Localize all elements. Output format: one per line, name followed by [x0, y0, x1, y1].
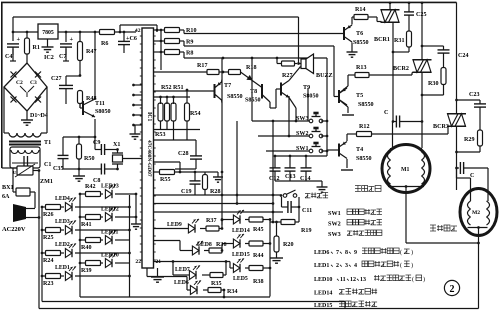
- svg-text:SW3: SW3: [328, 231, 341, 238]
- LED LED3: [65, 220, 76, 234]
- svg-text:22: 22: [135, 259, 141, 265]
- junction: [194, 171, 197, 174]
- svg-text:SW1: SW1: [328, 210, 341, 217]
- svg-text:LED6: LED6: [314, 250, 329, 256]
- svg-text:R14: R14: [355, 7, 366, 13]
- svg-text:ZM1: ZM1: [40, 179, 53, 185]
- junction: [276, 57, 279, 60]
- wire: [272, 195, 274, 222]
- resistor R44: [245, 241, 270, 259]
- ground: [21, 110, 33, 125]
- junction: [128, 275, 131, 278]
- legend SW2: [328, 220, 382, 228]
- LED LED13: [105, 184, 116, 198]
- legend SW3: [328, 230, 382, 238]
- wire: [10, 60, 16, 62]
- svg-text:R18: R18: [246, 65, 257, 71]
- junction: [421, 120, 424, 123]
- junction: [280, 194, 283, 197]
- wire: [321, 120, 327, 122]
- label LED11: [101, 230, 118, 236]
- triac BCR2: [393, 60, 432, 73]
- svg-text:R20: R20: [283, 242, 294, 248]
- resistor R47: [78, 32, 97, 76]
- svg-text:R1: R1: [33, 45, 40, 51]
- resistor R39: [80, 261, 103, 275]
- svg-text:9: 9: [354, 250, 357, 256]
- switch ANQ: [283, 190, 297, 197]
- wire: [221, 58, 223, 106]
- svg-text:R34: R34: [227, 289, 238, 295]
- label LED6: [174, 280, 189, 286]
- capacitor C9: [93, 140, 118, 155]
- wire: [13, 16, 299, 18]
- junction: [326, 150, 329, 153]
- wire: [299, 63, 302, 65]
- wire: [2, 2, 457, 168]
- resistor R10: [154, 28, 197, 35]
- capacitor C4: [5, 36, 21, 60]
- wire: [154, 228, 189, 230]
- wire: [94, 119, 96, 137]
- LED LED12: [105, 207, 116, 221]
- svg-text:LED5: LED5: [233, 276, 248, 282]
- svg-text:BCR3: BCR3: [433, 124, 449, 130]
- svg-text:S8050: S8050: [303, 94, 319, 100]
- wire: [443, 53, 445, 62]
- svg-text:3: 3: [345, 263, 348, 269]
- junction: [160, 29, 163, 32]
- wire: [341, 169, 353, 171]
- resistor R42: [80, 184, 103, 197]
- IC U1 47C400N-GD07: [135, 28, 161, 268]
- svg-text:BX1: BX1: [2, 185, 14, 191]
- wire: [173, 97, 175, 104]
- junction: [275, 221, 278, 224]
- wire: [63, 136, 95, 138]
- junction: [156, 29, 159, 32]
- wire: [340, 86, 348, 93]
- resistor R55: [154, 170, 196, 184]
- resistor R52: [158, 103, 163, 130]
- plug AC220V: [2, 204, 39, 233]
- wire: [75, 252, 130, 254]
- junction: [221, 171, 224, 174]
- junction: [477, 242, 480, 245]
- svg-text:C: C: [384, 110, 388, 116]
- resistor R14: [352, 7, 377, 20]
- wire: [221, 80, 224, 83]
- wire: [205, 171, 218, 173]
- svg-text:IC2: IC2: [44, 55, 54, 61]
- svg-text:R39: R39: [81, 268, 92, 274]
- resistor R36: [204, 242, 227, 253]
- wire: [154, 71, 208, 73]
- ground: [213, 172, 223, 182]
- wire: [154, 194, 282, 196]
- ground: [130, 125, 141, 139]
- wire: [443, 46, 445, 50]
- label LED2: [55, 242, 70, 248]
- switch SW2: [296, 127, 323, 138]
- svg-text:4: 4: [354, 263, 357, 269]
- svg-text:AC220V: AC220V: [2, 226, 26, 233]
- junction: [421, 1, 424, 4]
- switch SW1: [296, 142, 323, 153]
- wire: [183, 41, 185, 46]
- wire: [251, 58, 253, 121]
- label LED5: [233, 276, 248, 282]
- wire: [421, 73, 423, 149]
- svg-text:SW2: SW2: [296, 131, 309, 137]
- varistor ZM1: [13, 164, 53, 185]
- LED LED9: [188, 219, 199, 233]
- svg-text:R30: R30: [428, 81, 439, 87]
- transistor T6: [344, 25, 369, 46]
- wire: [154, 96, 191, 98]
- wire: [326, 150, 328, 156]
- wire: [65, 32, 67, 42]
- capacitor C19: [181, 172, 201, 195]
- wire: [34, 192, 36, 208]
- wire: [75, 275, 130, 277]
- junction: [132, 94, 135, 97]
- junction: [128, 252, 131, 255]
- triac BCR1: [374, 10, 400, 43]
- resistor R34: [203, 288, 238, 296]
- wire: [393, 51, 409, 53]
- label LED4: [55, 196, 70, 202]
- LED LED4: [65, 197, 76, 211]
- wire: [175, 168, 196, 170]
- junction: [135, 193, 138, 196]
- wire: [225, 262, 227, 276]
- svg-text:R8: R8: [186, 51, 193, 57]
- wire: [258, 135, 311, 137]
- wire: [183, 30, 185, 34]
- junction: [272, 221, 275, 224]
- capacitor C2m: [460, 162, 488, 179]
- junction: [94, 31, 97, 34]
- svg-text:LED15: LED15: [232, 252, 250, 258]
- svg-text:T4: T4: [356, 147, 363, 153]
- junction: [251, 57, 254, 60]
- wire: [42, 301, 345, 303]
- wire: [75, 229, 130, 231]
- wire: [457, 99, 481, 101]
- ground: [347, 50, 358, 57]
- svg-text:LED8: LED8: [197, 242, 212, 248]
- junction: [26, 31, 29, 34]
- svg-text:R19: R19: [301, 228, 312, 234]
- wire: [389, 2, 391, 10]
- label R52 R51: [161, 85, 184, 91]
- capacitor C23: [469, 92, 486, 107]
- svg-text:+: +: [70, 36, 74, 43]
- wire: [327, 149, 339, 151]
- svg-text:T1: T1: [44, 140, 51, 146]
- svg-text:S8550: S8550: [353, 40, 369, 46]
- LED LED14: [233, 210, 244, 224]
- wire: [377, 21, 382, 23]
- regulator IC2 7805: [38, 24, 58, 39]
- junction: [272, 211, 275, 214]
- buzzer BUZZ: [301, 54, 333, 79]
- wire: [120, 24, 157, 26]
- wire: [456, 2, 458, 113]
- wire: [184, 57, 327, 59]
- capacitor C25: [404, 2, 427, 31]
- wire: [3, 87, 5, 133]
- wire: [160, 97, 162, 104]
- junction: [326, 120, 329, 123]
- wire: [46, 87, 48, 133]
- svg-text:+: +: [17, 36, 21, 43]
- junction: [166, 96, 169, 99]
- junction: [455, 151, 458, 154]
- svg-text:C4: C4: [5, 54, 12, 60]
- wire: [154, 139, 197, 141]
- wire: [392, 22, 394, 53]
- wire: [221, 106, 223, 225]
- svg-text:LED10: LED10: [314, 277, 332, 283]
- svg-text:12: 12: [350, 277, 356, 283]
- junction: [12, 31, 15, 34]
- junction: [79, 74, 82, 77]
- wire: [66, 75, 80, 77]
- svg-text:S8050: S8050: [95, 109, 111, 115]
- svg-text:S8550: S8550: [245, 98, 261, 104]
- wire: [307, 88, 309, 121]
- svg-text:LED15: LED15: [314, 303, 332, 309]
- wire: [276, 58, 278, 64]
- wire: [156, 25, 158, 30]
- svg-text:42: 42: [135, 28, 141, 34]
- svg-text:R12: R12: [359, 124, 370, 130]
- junction: [79, 216, 82, 219]
- wire: [478, 243, 480, 309]
- svg-text:SW3: SW3: [296, 116, 309, 122]
- legend LED15: [314, 301, 377, 309]
- wire: [221, 244, 223, 251]
- resistor R31: [394, 31, 412, 52]
- junction: [135, 216, 138, 219]
- label LED14: [232, 228, 250, 234]
- crystal X1: [112, 142, 142, 169]
- wire: [457, 151, 481, 153]
- svg-text:7805: 7805: [42, 30, 54, 36]
- label LED1: [55, 265, 70, 271]
- svg-text:M2: M2: [472, 210, 480, 216]
- junction: [221, 194, 224, 197]
- svg-text:LED14: LED14: [232, 228, 250, 234]
- junction: [236, 202, 239, 205]
- junction: [477, 226, 480, 229]
- wire: [346, 159, 348, 168]
- ground: [270, 256, 283, 263]
- resistor R51: [165, 103, 170, 130]
- wire: [412, 72, 413, 74]
- wire: [134, 94, 143, 96]
- junction: [79, 262, 82, 265]
- wire: [2, 167, 17, 169]
- junction: [38, 169, 41, 172]
- svg-text:R54: R54: [190, 111, 201, 117]
- ground: [131, 221, 141, 229]
- wire: [154, 211, 284, 213]
- wire: [321, 135, 327, 137]
- label LED12: [101, 207, 119, 213]
- label LED13: [101, 184, 119, 190]
- wire: [342, 114, 354, 116]
- svg-text:R55: R55: [160, 177, 171, 183]
- svg-text:LED1: LED1: [314, 263, 329, 269]
- wire: [160, 30, 162, 70]
- wire: [275, 89, 277, 108]
- svg-text:R52 R51: R52 R51: [161, 85, 184, 91]
- wire: [115, 239, 130, 241]
- wire: [38, 171, 40, 309]
- svg-text:C28: C28: [178, 151, 189, 157]
- wire: [392, 122, 394, 149]
- junction: [455, 167, 458, 170]
- fuse BX1: [2, 185, 30, 200]
- svg-text:1: 1: [156, 28, 159, 34]
- resistor R18: [219, 65, 257, 75]
- transistor T4: [339, 142, 372, 163]
- junction: [159, 96, 162, 99]
- resistor R38: [245, 266, 270, 286]
- svg-text:S8550: S8550: [356, 156, 372, 162]
- svg-text:BUZZ: BUZZ: [316, 73, 333, 79]
- capacitor C28: [178, 140, 202, 169]
- junction: [288, 135, 291, 138]
- wire: [39, 308, 390, 310]
- wire: [422, 94, 444, 96]
- junction: [408, 1, 411, 4]
- junction: [132, 104, 135, 107]
- svg-text:R38: R38: [253, 279, 264, 285]
- capacitor C12: [269, 156, 281, 182]
- svg-text:): ): [423, 276, 425, 283]
- svg-text:SW1: SW1: [296, 146, 309, 152]
- resistor R19: [281, 220, 312, 235]
- junction: [421, 94, 424, 97]
- wire: [13, 31, 136, 33]
- switch SW3: [296, 112, 323, 123]
- svg-text:C23: C23: [469, 92, 480, 98]
- svg-text:T5: T5: [356, 93, 363, 99]
- junction: [269, 242, 272, 245]
- svg-text:2: 2: [450, 284, 455, 295]
- resistor R1: [25, 32, 40, 64]
- label LED10: [101, 253, 119, 259]
- LED LED2: [65, 243, 76, 257]
- capacitor C8: [93, 164, 118, 185]
- svg-text:R24: R24: [43, 258, 54, 264]
- wire: [236, 121, 238, 204]
- wire: [479, 100, 481, 104]
- wire: [135, 194, 137, 221]
- label IC2: [44, 55, 54, 61]
- svg-text:R36: R36: [216, 242, 227, 248]
- junction: [272, 194, 275, 197]
- svg-text:R13: R13: [356, 65, 367, 71]
- junction: [221, 219, 224, 222]
- wire: [230, 267, 233, 269]
- junction: [297, 62, 300, 65]
- svg-text:BCR2: BCR2: [393, 66, 409, 72]
- capacitor C35: [53, 137, 69, 172]
- capacitor C1: [10, 147, 51, 168]
- wire: [119, 25, 121, 32]
- junction: [119, 31, 122, 34]
- svg-text:C7: C7: [59, 54, 66, 60]
- wire: [275, 180, 322, 182]
- wire: [173, 130, 175, 141]
- svg-text:2: 2: [336, 263, 339, 269]
- svg-text:C2: C2: [16, 80, 23, 86]
- junction: [128, 229, 131, 232]
- ground: [317, 181, 328, 192]
- wire: [129, 195, 131, 297]
- transistor T7: [215, 82, 243, 100]
- transformer T1: [4, 133, 51, 146]
- svg-text:R41: R41: [81, 222, 92, 228]
- junction: [132, 124, 135, 127]
- wire: [63, 60, 69, 62]
- wire: [154, 203, 274, 205]
- wire: [80, 107, 83, 109]
- svg-text:S8550: S8550: [358, 102, 374, 108]
- svg-text:LED7: LED7: [175, 267, 190, 273]
- wire: [180, 250, 192, 252]
- wire: [288, 96, 290, 136]
- wire: [134, 84, 143, 86]
- legend LED10-13: [314, 275, 425, 283]
- legend LED14: [314, 289, 377, 297]
- svg-text:M1: M1: [401, 167, 409, 173]
- wire: [457, 177, 471, 179]
- ground: [42, 39, 54, 52]
- capacitor C11: [282, 201, 313, 214]
- junction: [78, 168, 81, 171]
- resistor R28: [203, 172, 221, 195]
- svg-text:R17: R17: [197, 63, 208, 69]
- junction: [41, 206, 44, 209]
- legend LED6-9: [314, 248, 413, 256]
- wire: [266, 150, 311, 152]
- wire: [298, 197, 300, 222]
- svg-text:LED2: LED2: [55, 242, 70, 248]
- wire: [347, 107, 349, 113]
- svg-text:LED3: LED3: [55, 219, 70, 225]
- wire: [457, 167, 460, 169]
- wire: [456, 168, 458, 178]
- capacitor C6: [118, 32, 137, 53]
- transistor T8: [241, 72, 271, 108]
- junction: [38, 216, 41, 219]
- svg-text:6A: 6A: [2, 194, 10, 200]
- resistor R26: [42, 205, 64, 219]
- svg-text:D1~D4: D1~D4: [30, 113, 48, 119]
- wire: [12, 168, 14, 192]
- svg-text:7: 7: [336, 250, 339, 256]
- wire: [392, 56, 394, 122]
- wire: [179, 162, 181, 172]
- wire: [33, 170, 39, 172]
- label LED3: [55, 219, 70, 225]
